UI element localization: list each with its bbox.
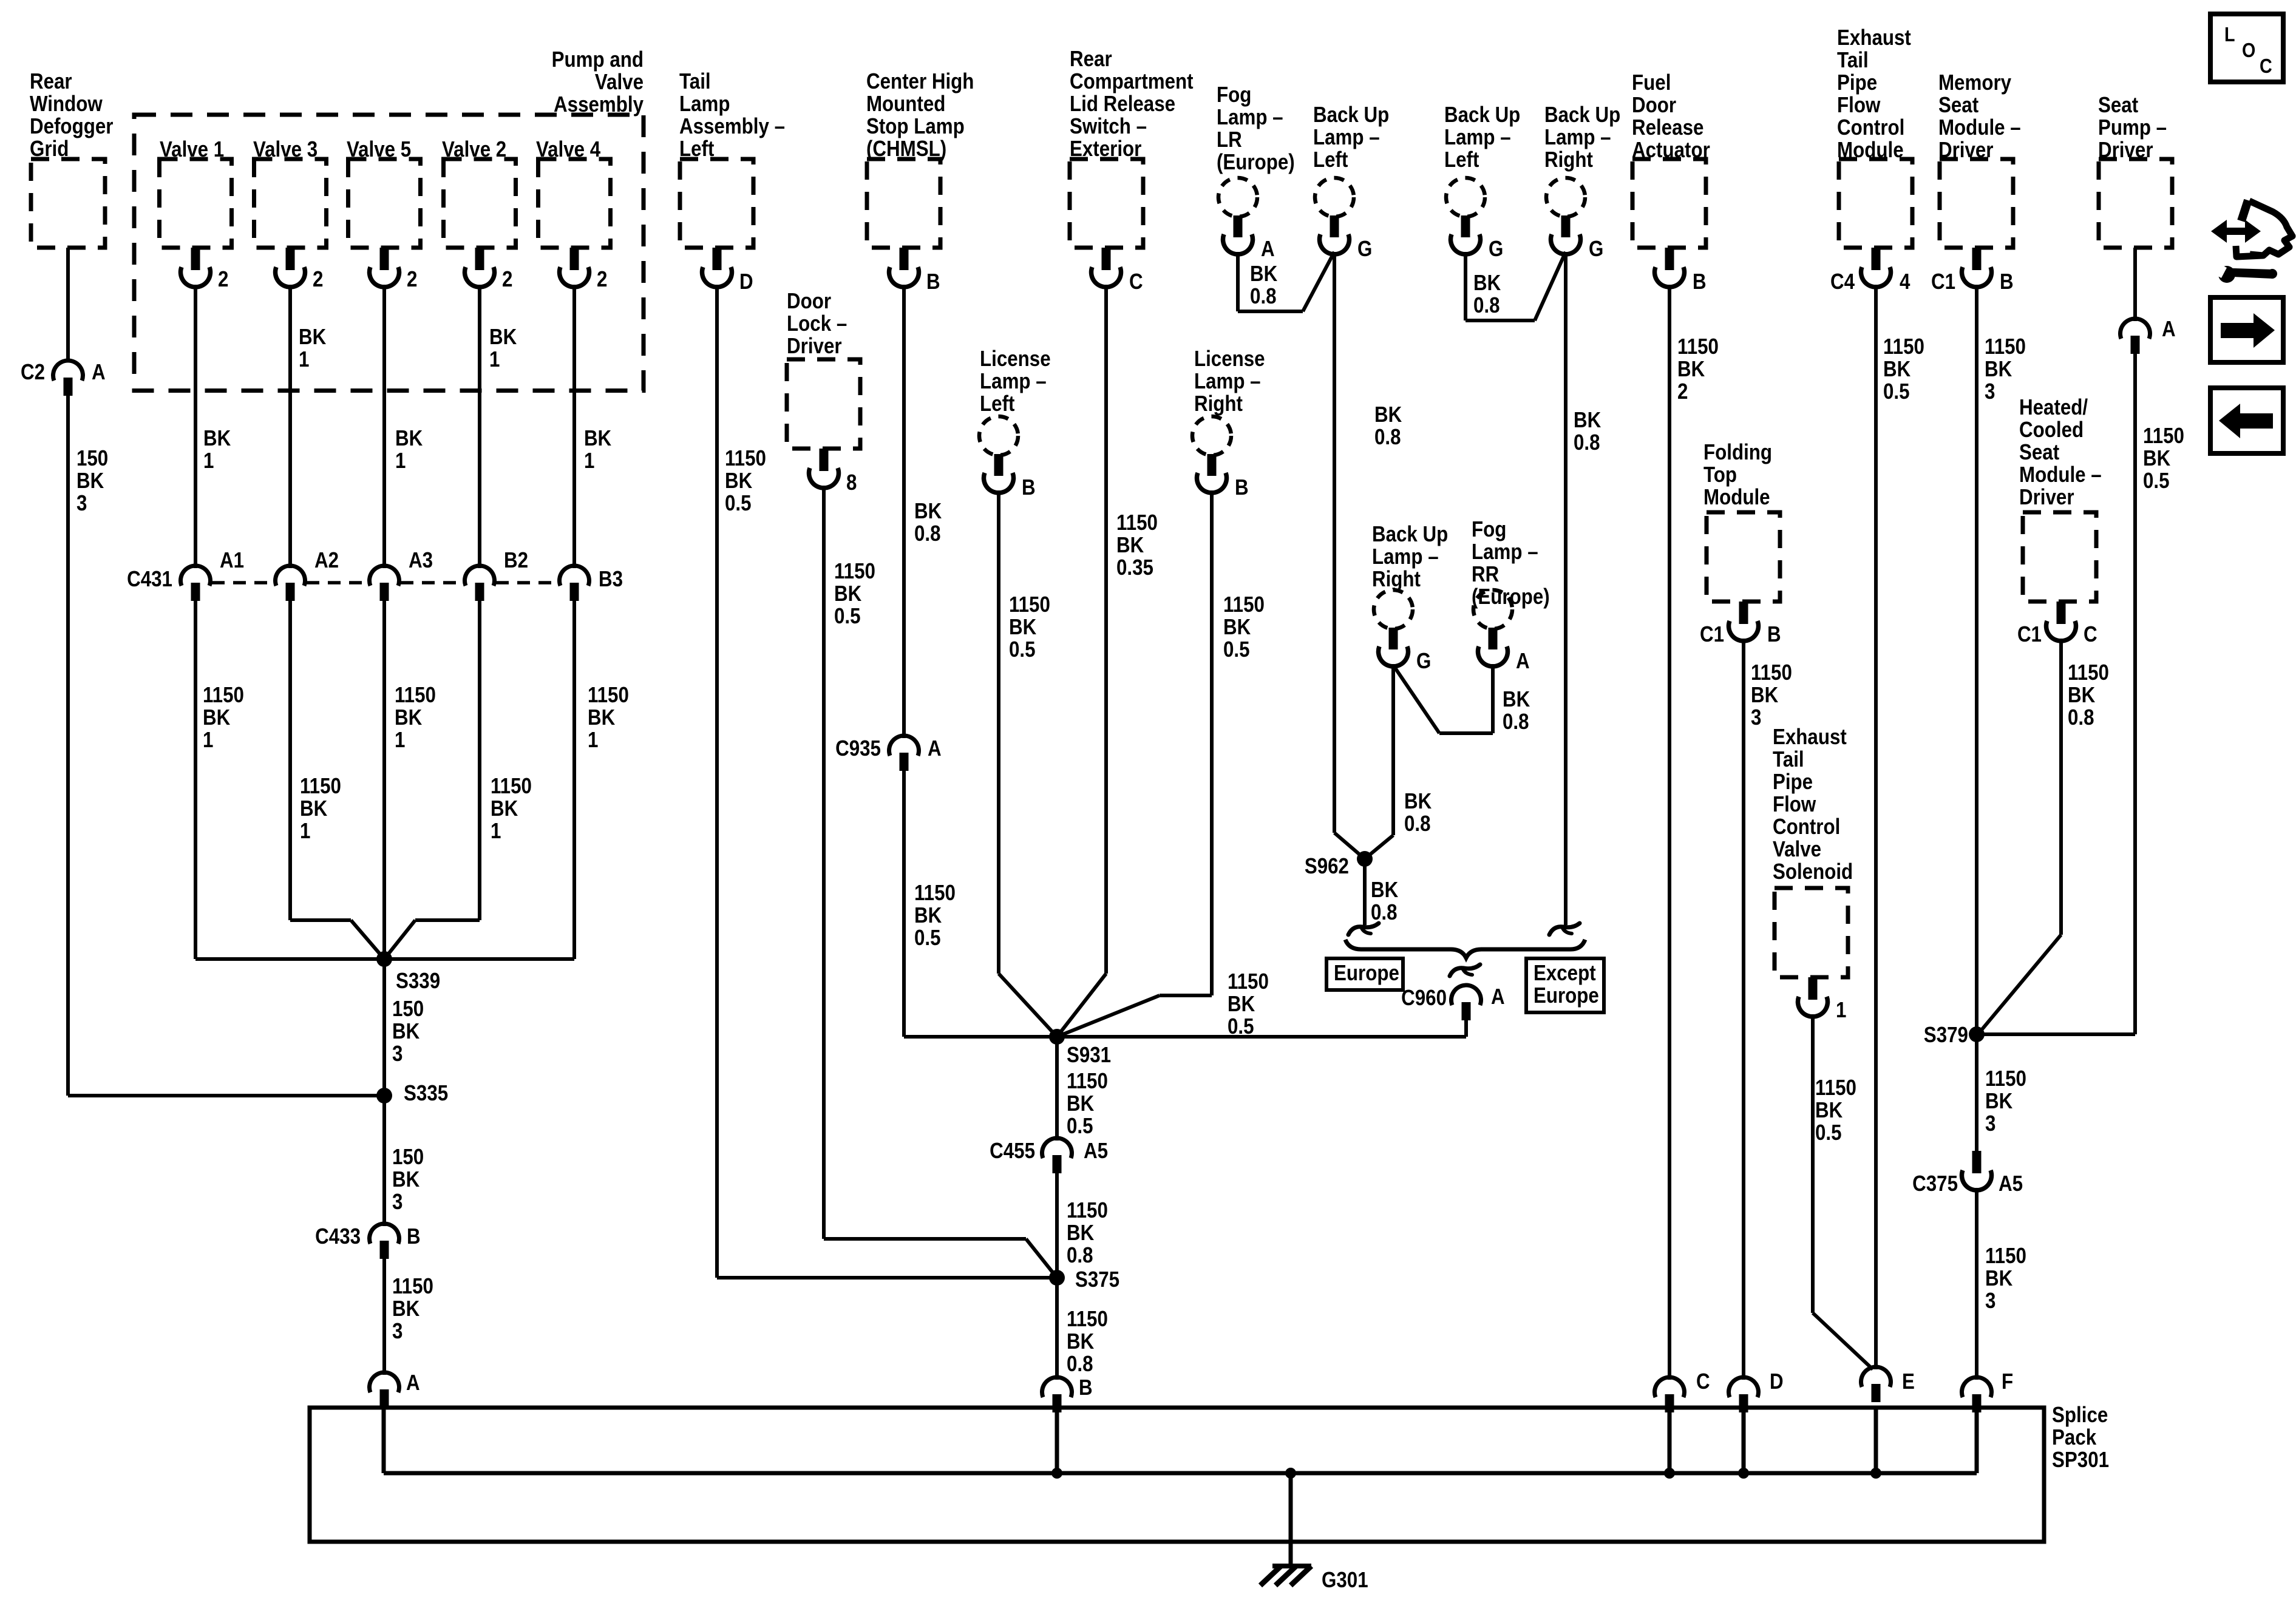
- svg-text:1150: 1150: [395, 683, 436, 708]
- svg-text:BK: BK: [584, 426, 612, 451]
- svg-text:Exhaust: Exhaust: [1837, 25, 1911, 50]
- svg-text:0.8: 0.8: [914, 521, 941, 546]
- svg-text:License: License: [980, 347, 1051, 371]
- svg-text:BK: BK: [1677, 357, 1705, 382]
- svg-text:BK: BK: [395, 426, 423, 451]
- svg-text:Lamp –: Lamp –: [1444, 125, 1511, 150]
- svg-text:0.5: 0.5: [1815, 1120, 1842, 1145]
- svg-text:Lock –: Lock –: [787, 311, 847, 336]
- svg-text:S339: S339: [396, 969, 440, 994]
- svg-text:C935: C935: [835, 736, 881, 761]
- svg-text:Exhaust: Exhaust: [1773, 725, 1847, 750]
- svg-text:BK: BK: [1374, 402, 1402, 427]
- svg-text:1: 1: [491, 819, 501, 844]
- svg-text:1150: 1150: [2143, 424, 2184, 449]
- svg-text:1150: 1150: [300, 774, 341, 799]
- svg-text:1150: 1150: [1985, 1066, 2026, 1091]
- svg-text:Mounted: Mounted: [866, 92, 945, 117]
- svg-text:Lamp –: Lamp –: [1544, 125, 1611, 150]
- svg-text:C: C: [2260, 55, 2272, 77]
- svg-text:Right: Right: [1372, 567, 1421, 592]
- svg-text:BK: BK: [1223, 615, 1251, 640]
- svg-text:G: G: [1357, 237, 1372, 262]
- svg-text:Except: Except: [1533, 961, 1596, 986]
- svg-text:Lamp –: Lamp –: [1372, 544, 1439, 569]
- svg-text:B: B: [407, 1224, 421, 1249]
- svg-text:Assembly –: Assembly –: [679, 114, 785, 139]
- svg-text:1150: 1150: [1815, 1076, 1856, 1100]
- svg-text:BK: BK: [914, 499, 942, 524]
- svg-text:C1: C1: [2017, 622, 2042, 647]
- svg-text:150: 150: [392, 997, 424, 1022]
- svg-text:Lamp –: Lamp –: [1313, 125, 1380, 150]
- svg-text:BK: BK: [1473, 271, 1501, 296]
- svg-text:Release: Release: [1632, 115, 1703, 140]
- svg-text:BK: BK: [1503, 687, 1530, 712]
- svg-text:G: G: [1589, 237, 1603, 262]
- svg-text:1: 1: [203, 728, 213, 753]
- svg-text:C1: C1: [1700, 622, 1724, 647]
- svg-text:L: L: [2224, 23, 2235, 46]
- svg-text:0.8: 0.8: [1404, 812, 1431, 836]
- svg-text:Module –: Module –: [2019, 463, 2102, 487]
- svg-text:C4: C4: [1830, 269, 1855, 294]
- svg-text:G: G: [1416, 649, 1431, 674]
- svg-text:BK: BK: [914, 903, 942, 928]
- svg-text:S379: S379: [1924, 1023, 1968, 1048]
- svg-text:1150: 1150: [1116, 510, 1158, 535]
- svg-text:B: B: [1693, 269, 1707, 294]
- svg-text:Door: Door: [787, 289, 831, 314]
- svg-text:0.8: 0.8: [1374, 425, 1401, 450]
- svg-text:0.8: 0.8: [1067, 1352, 1093, 1377]
- svg-text:BK: BK: [2068, 683, 2096, 708]
- svg-text:Fuel: Fuel: [1632, 70, 1671, 95]
- svg-text:1150: 1150: [1067, 1198, 1108, 1223]
- svg-text:BK: BK: [1250, 262, 1278, 286]
- svg-text:0.5: 0.5: [1009, 637, 1036, 662]
- svg-text:Splice: Splice: [2052, 1403, 2108, 1428]
- svg-text:A5: A5: [1999, 1171, 2023, 1196]
- svg-text:A: A: [1516, 649, 1530, 674]
- svg-text:B: B: [2000, 269, 2014, 294]
- svg-text:B3: B3: [599, 567, 623, 592]
- svg-text:D: D: [1770, 1369, 1784, 1394]
- svg-text:2: 2: [218, 267, 228, 292]
- svg-text:1: 1: [584, 449, 594, 473]
- svg-text:1150: 1150: [1883, 334, 1924, 359]
- svg-text:1150: 1150: [588, 683, 629, 708]
- svg-text:Lamp –: Lamp –: [1194, 369, 1261, 394]
- svg-text:3: 3: [76, 491, 87, 516]
- svg-text:BK: BK: [1228, 992, 1255, 1017]
- svg-text:1150: 1150: [2068, 660, 2109, 685]
- svg-text:0.5: 0.5: [1883, 379, 1910, 404]
- svg-text:Valve: Valve: [1773, 837, 1821, 862]
- svg-text:3: 3: [392, 1042, 402, 1066]
- svg-text:E: E: [1902, 1369, 1915, 1394]
- svg-text:S931: S931: [1067, 1043, 1111, 1068]
- svg-text:1: 1: [588, 728, 598, 753]
- svg-text:Seat: Seat: [2098, 93, 2138, 118]
- svg-text:Pump and: Pump and: [552, 47, 644, 72]
- svg-text:BK: BK: [1985, 357, 2012, 382]
- svg-text:(Europe): (Europe): [1217, 150, 1295, 175]
- svg-text:Lamp –: Lamp –: [980, 369, 1047, 394]
- svg-text:RR: RR: [1472, 562, 1499, 587]
- svg-text:License: License: [1194, 347, 1265, 371]
- svg-text:0.8: 0.8: [1250, 284, 1277, 309]
- svg-text:C1: C1: [1931, 269, 1955, 294]
- svg-text:S962: S962: [1305, 854, 1349, 879]
- svg-text:Door: Door: [1632, 93, 1676, 118]
- svg-text:C: C: [1696, 1369, 1710, 1394]
- svg-text:Back Up: Back Up: [1313, 103, 1389, 127]
- svg-text:Back Up: Back Up: [1372, 522, 1448, 547]
- svg-text:A3: A3: [409, 548, 433, 573]
- svg-text:BK: BK: [2143, 446, 2171, 471]
- svg-text:Assembly: Assembly: [554, 92, 644, 117]
- svg-text:Right: Right: [1544, 147, 1593, 172]
- svg-text:A1: A1: [220, 548, 244, 573]
- svg-text:Stop Lamp: Stop Lamp: [866, 114, 965, 139]
- svg-text:BK: BK: [1985, 1089, 2013, 1114]
- svg-text:B: B: [926, 269, 940, 294]
- svg-text:Lamp –: Lamp –: [1217, 105, 1283, 130]
- svg-text:BK: BK: [392, 1019, 420, 1044]
- svg-text:S335: S335: [404, 1081, 448, 1106]
- svg-text:BK: BK: [203, 705, 231, 730]
- svg-text:Pipe: Pipe: [1773, 770, 1813, 795]
- svg-text:Driver: Driver: [2019, 485, 2074, 510]
- svg-text:1150: 1150: [914, 881, 956, 906]
- svg-text:0.35: 0.35: [1116, 555, 1153, 580]
- svg-text:BK: BK: [203, 426, 231, 451]
- svg-text:BK: BK: [489, 325, 517, 350]
- svg-text:BK: BK: [1985, 1266, 2013, 1291]
- svg-text:Cooled: Cooled: [2019, 418, 2084, 442]
- svg-text:A2: A2: [314, 548, 339, 573]
- svg-text:0.5: 0.5: [725, 491, 752, 516]
- svg-text:A5: A5: [1084, 1139, 1108, 1164]
- svg-text:BK: BK: [1883, 357, 1911, 382]
- svg-text:Driver: Driver: [787, 334, 842, 359]
- svg-text:Flow: Flow: [1837, 93, 1881, 118]
- svg-text:3: 3: [392, 1190, 402, 1215]
- svg-text:A: A: [928, 736, 942, 761]
- svg-text:150: 150: [76, 446, 108, 471]
- svg-text:Europe: Europe: [1533, 983, 1599, 1008]
- svg-text:Compartment: Compartment: [1070, 69, 1194, 94]
- svg-text:B: B: [1767, 622, 1781, 647]
- svg-text:Control: Control: [1773, 815, 1840, 839]
- svg-text:A: A: [2162, 317, 2176, 342]
- svg-text:1150: 1150: [725, 446, 766, 471]
- svg-text:Module –: Module –: [1938, 115, 2021, 140]
- svg-text:1150: 1150: [1751, 660, 1792, 685]
- svg-text:3: 3: [392, 1319, 402, 1344]
- svg-text:0.8: 0.8: [1473, 293, 1500, 318]
- svg-text:1: 1: [299, 347, 309, 372]
- svg-text:Top: Top: [1703, 463, 1737, 487]
- svg-text:Left: Left: [980, 392, 1014, 416]
- svg-text:BK: BK: [1404, 789, 1432, 814]
- svg-text:1150: 1150: [1067, 1307, 1108, 1332]
- svg-text:1: 1: [300, 819, 310, 844]
- svg-text:0.8: 0.8: [1371, 900, 1398, 925]
- svg-text:Tail: Tail: [679, 69, 711, 94]
- svg-text:150: 150: [392, 1145, 424, 1170]
- svg-text:C375: C375: [1912, 1171, 1958, 1196]
- svg-text:Europe: Europe: [1334, 961, 1399, 986]
- svg-text:Left: Left: [1444, 147, 1479, 172]
- svg-text:1150: 1150: [1009, 592, 1050, 617]
- svg-text:1: 1: [395, 449, 406, 473]
- svg-text:Pump –: Pump –: [2098, 115, 2167, 140]
- svg-text:Control: Control: [1837, 115, 1904, 140]
- svg-text:Seat: Seat: [1938, 93, 1978, 118]
- svg-text:B: B: [1079, 1375, 1093, 1400]
- svg-text:Back Up: Back Up: [1444, 103, 1520, 127]
- svg-text:BK: BK: [1067, 1329, 1095, 1354]
- svg-text:BK: BK: [76, 469, 104, 493]
- svg-text:0.8: 0.8: [1503, 710, 1529, 734]
- svg-text:2: 2: [407, 267, 417, 292]
- svg-text:2: 2: [313, 267, 323, 292]
- svg-text:BK: BK: [1815, 1098, 1843, 1123]
- svg-text:Folding: Folding: [1703, 440, 1772, 465]
- svg-text:0.8: 0.8: [1574, 430, 1600, 455]
- svg-text:B: B: [1022, 475, 1036, 500]
- svg-text:BK: BK: [1574, 408, 1601, 433]
- svg-text:Heated/: Heated/: [2019, 395, 2088, 420]
- svg-text:Back Up: Back Up: [1544, 103, 1620, 127]
- svg-text:Left: Left: [1313, 147, 1348, 172]
- svg-text:0.5: 0.5: [914, 926, 941, 951]
- svg-text:BK: BK: [392, 1297, 420, 1321]
- svg-text:D: D: [739, 269, 753, 294]
- svg-text:3: 3: [1751, 705, 1761, 730]
- svg-text:B: B: [1235, 475, 1249, 500]
- svg-text:3: 3: [1985, 379, 1995, 404]
- svg-text:F: F: [2002, 1369, 2013, 1394]
- svg-text:8: 8: [846, 470, 857, 495]
- svg-text:BK: BK: [1751, 683, 1779, 708]
- svg-text:Fog: Fog: [1217, 83, 1251, 107]
- svg-text:BK: BK: [491, 796, 518, 821]
- svg-text:A: A: [1491, 985, 1505, 1009]
- svg-text:1150: 1150: [1677, 334, 1719, 359]
- svg-text:Lamp: Lamp: [679, 92, 730, 117]
- svg-text:0.5: 0.5: [1223, 637, 1250, 662]
- svg-text:C2: C2: [21, 360, 45, 385]
- svg-text:G301: G301: [1322, 1568, 1368, 1593]
- svg-text:Module: Module: [1703, 485, 1770, 510]
- svg-text:Window: Window: [30, 92, 103, 117]
- svg-text:C455: C455: [990, 1139, 1035, 1164]
- svg-text:1150: 1150: [1228, 969, 1269, 994]
- svg-text:3: 3: [1985, 1111, 1995, 1136]
- svg-text:BK: BK: [588, 705, 616, 730]
- svg-text:Pack: Pack: [2052, 1425, 2096, 1450]
- svg-text:SP301: SP301: [2052, 1448, 2109, 1473]
- svg-text:BK: BK: [1116, 533, 1144, 558]
- svg-text:Rear: Rear: [1070, 47, 1112, 72]
- svg-text:1150: 1150: [392, 1274, 433, 1299]
- svg-text:2: 2: [597, 267, 607, 292]
- svg-text:S375: S375: [1075, 1267, 1119, 1292]
- svg-text:C: C: [1129, 269, 1143, 294]
- svg-text:Memory: Memory: [1938, 70, 2011, 95]
- svg-text:1150: 1150: [834, 559, 875, 584]
- svg-text:2: 2: [502, 267, 512, 292]
- svg-text:C433: C433: [315, 1224, 361, 1249]
- svg-text:BK: BK: [725, 469, 753, 493]
- svg-text:1: 1: [395, 728, 405, 753]
- svg-text:4: 4: [1900, 269, 1911, 294]
- svg-text:BK: BK: [834, 581, 862, 606]
- svg-text:Valve: Valve: [595, 70, 644, 95]
- svg-text:G: G: [1489, 237, 1503, 262]
- svg-text:BK: BK: [1067, 1221, 1095, 1246]
- svg-text:Flow: Flow: [1773, 792, 1816, 817]
- svg-text:Switch –: Switch –: [1070, 114, 1147, 139]
- svg-text:LR: LR: [1217, 127, 1242, 152]
- svg-text:C431: C431: [127, 567, 172, 592]
- svg-text:A: A: [1261, 237, 1275, 262]
- svg-text:BK: BK: [1067, 1091, 1095, 1116]
- svg-text:1: 1: [1836, 998, 1846, 1023]
- svg-text:2: 2: [1677, 379, 1688, 404]
- svg-text:0.5: 0.5: [1067, 1114, 1093, 1139]
- svg-text:BK: BK: [299, 325, 327, 350]
- svg-text:A: A: [92, 360, 106, 385]
- svg-text:Rear: Rear: [30, 69, 72, 94]
- svg-text:C960: C960: [1401, 986, 1447, 1011]
- svg-text:0.8: 0.8: [1067, 1243, 1093, 1268]
- svg-text:1150: 1150: [203, 683, 244, 708]
- svg-text:1: 1: [489, 347, 500, 372]
- svg-text:1: 1: [203, 449, 214, 473]
- svg-text:Lid Release: Lid Release: [1070, 92, 1175, 117]
- svg-text:Tail: Tail: [1837, 48, 1869, 73]
- svg-text:BK: BK: [1009, 615, 1037, 640]
- svg-text:Fog: Fog: [1472, 517, 1506, 542]
- svg-text:BK: BK: [1371, 878, 1399, 903]
- svg-text:A: A: [406, 1371, 420, 1395]
- svg-text:Tail: Tail: [1773, 747, 1804, 772]
- svg-text:B2: B2: [504, 548, 528, 573]
- svg-text:1150: 1150: [1223, 592, 1265, 617]
- svg-text:BK: BK: [392, 1167, 420, 1192]
- svg-text:O: O: [2242, 39, 2255, 61]
- svg-text:Center High: Center High: [866, 69, 974, 94]
- svg-text:0.8: 0.8: [2068, 705, 2094, 730]
- svg-text:Defogger: Defogger: [30, 114, 113, 139]
- svg-text:1150: 1150: [1067, 1069, 1108, 1094]
- svg-text:1150: 1150: [1985, 1244, 2026, 1269]
- svg-text:1150: 1150: [1985, 334, 2026, 359]
- svg-text:BK: BK: [395, 705, 423, 730]
- svg-text:0.5: 0.5: [834, 604, 861, 629]
- svg-text:Lamp –: Lamp –: [1472, 540, 1538, 564]
- svg-text:Pipe: Pipe: [1837, 70, 1877, 95]
- svg-text:Seat: Seat: [2019, 440, 2059, 465]
- svg-text:BK: BK: [300, 796, 328, 821]
- svg-text:Solenoid: Solenoid: [1773, 859, 1853, 884]
- svg-text:0.5: 0.5: [2143, 469, 2170, 493]
- svg-text:Right: Right: [1194, 392, 1243, 416]
- svg-text:3: 3: [1985, 1289, 1995, 1314]
- svg-text:1150: 1150: [491, 774, 532, 799]
- svg-text:C: C: [2084, 622, 2097, 647]
